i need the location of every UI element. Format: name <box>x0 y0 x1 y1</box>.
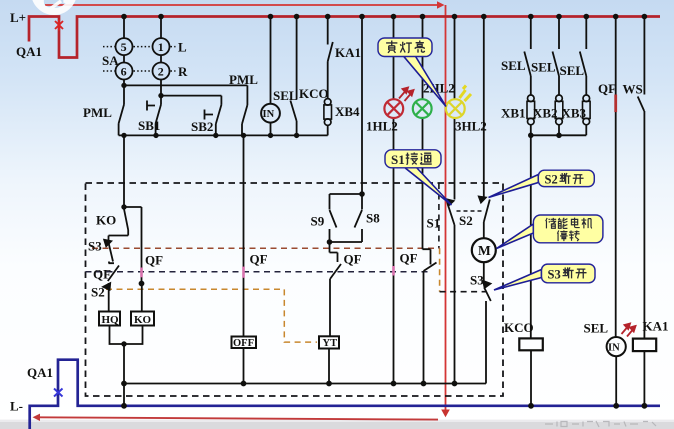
svg-text:M: M <box>478 243 491 258</box>
callout text 储能电机 <box>546 218 592 229</box>
contact KO <box>109 209 129 241</box>
svg-text:S2: S2 <box>459 213 473 228</box>
pink state mark on KO branch <box>140 268 143 278</box>
callout pointer to 3HL2 <box>403 56 446 107</box>
svg-text:KCO: KCO <box>299 86 329 101</box>
svg-text:L+: L+ <box>10 10 26 25</box>
dashed linkage orange vertical x=439.6 <box>439 248 441 291</box>
svg-text:5: 5 <box>121 40 127 54</box>
svg-text:SEL: SEL <box>531 60 556 75</box>
wire: S2 M S3 column from bus <box>483 17 485 197</box>
wire: SA 5 to 6 <box>123 55 125 63</box>
svg-text:QF: QF <box>93 267 111 282</box>
svg-text:S2: S2 <box>91 285 105 300</box>
dashed linkage maroon y=248.3 <box>92 247 440 249</box>
svg-text:S3: S3 <box>548 267 561 281</box>
callout box S3-opens <box>542 264 596 283</box>
svg-text:KO: KO <box>134 314 152 326</box>
wire: bottom connector y=383.5 <box>124 383 486 385</box>
L- bus QA1 breaker blue <box>30 360 660 429</box>
svg-text:SEL: SEL <box>501 58 526 73</box>
wire: sub-bus from SA6 y=85.4 <box>124 79 247 85</box>
dashed linkage S3 right horizontal <box>440 291 486 293</box>
SA contact 2 <box>153 63 170 80</box>
svg-text:S1: S1 <box>427 216 441 231</box>
callout pointer to S3 <box>494 270 542 291</box>
svg-text:1: 1 <box>158 40 164 54</box>
svg-text:QF: QF <box>145 253 163 268</box>
lamp column 1HL2 <box>393 17 395 384</box>
wire: KO box to join <box>124 326 143 345</box>
contact S8 <box>330 194 363 242</box>
arrow marker S3 right <box>483 281 490 288</box>
wire: KA1 coil to L- <box>643 351 645 406</box>
lamp SEL IN bottom <box>607 337 626 356</box>
svg-text:OFF: OFF <box>233 338 254 349</box>
svg-text:S3: S3 <box>470 273 484 288</box>
wire: lower distribution bus y=135.4 <box>119 134 328 136</box>
connector XB3 <box>583 95 590 102</box>
contact QF mid <box>330 242 342 336</box>
dashed linkage orange S2 to YT <box>106 289 317 342</box>
pink state mark QF 1HL2-column <box>392 266 395 276</box>
dashed linkage dark y=271.8 <box>86 271 431 273</box>
relay box YT <box>319 336 339 348</box>
wire: XB join line <box>531 124 587 135</box>
relay box HQ <box>99 312 120 326</box>
svg-text:SA: SA <box>102 53 119 68</box>
motor M <box>472 238 496 262</box>
wire: IN lamp to L- <box>615 356 617 406</box>
wire: SA 1 to 2 <box>160 55 162 63</box>
lamp 3HL2 yellow <box>446 99 465 118</box>
wire: sub-bus from SA2 y=95.6 <box>161 79 221 95</box>
svg-text:WS: WS <box>623 82 643 97</box>
wire: current-flow bottom horizontal <box>37 417 438 419</box>
svg-text:SEL: SEL <box>584 321 609 336</box>
glow arrows SEL IN <box>622 324 636 337</box>
svg-text:YT: YT <box>323 338 338 349</box>
dotted links SA row2 <box>103 70 115 72</box>
relay box KO <box>131 312 154 326</box>
connector XB1 <box>528 95 535 102</box>
svg-text:R: R <box>178 64 188 79</box>
wire: M to S3 <box>483 262 485 281</box>
wire: OFF to connector <box>243 348 245 384</box>
svg-text:S9: S9 <box>311 214 325 229</box>
lamp column 3HL2 <box>454 17 456 200</box>
contact KA1 <box>328 17 333 100</box>
pink state mark QF off-column <box>242 267 245 278</box>
contact QF left <box>108 266 119 312</box>
contact PML (left) <box>119 85 124 135</box>
contact SEL 3 <box>580 17 587 96</box>
wire: bus to SA circle 5 <box>123 17 125 39</box>
svg-text:XB1: XB1 <box>501 106 526 121</box>
svg-text:IN: IN <box>263 109 275 120</box>
glow rays 3HL2 <box>460 86 472 102</box>
wire: YT to connector <box>328 349 330 384</box>
callout box S1-closes <box>385 150 441 168</box>
svg-text:SB1: SB1 <box>138 118 160 133</box>
svg-text:L-: L- <box>10 399 23 414</box>
wire: join down to L- <box>123 344 125 406</box>
lamp SEL IN <box>270 17 272 136</box>
SA contact 6 <box>116 63 133 80</box>
coil KA1 <box>633 339 656 352</box>
contact SEL 1 <box>524 17 531 96</box>
arrow marker S2 right <box>479 197 486 203</box>
callout pointer to M <box>497 224 534 249</box>
svg-text:QF: QF <box>344 252 362 267</box>
contact SB2 push-button <box>205 96 222 136</box>
dashed inner partition vertical x=439 <box>438 183 440 248</box>
glow arrows 1HL2 <box>399 88 414 102</box>
svg-text:PML: PML <box>83 105 112 120</box>
wire: current-flow indicator top horizontal <box>45 4 437 6</box>
svg-text:XB2: XB2 <box>533 106 558 121</box>
wire: bus to SA circle 1 <box>160 17 162 39</box>
contact SEL 2 <box>553 17 560 96</box>
watermark logo top-left <box>35 0 74 12</box>
wire: KCO coil to L- <box>530 350 532 406</box>
relay box OFF <box>232 337 257 349</box>
arrow marker S3 <box>104 240 111 246</box>
svg-text:1HL2: 1HL2 <box>366 119 398 134</box>
svg-text:KA1: KA1 <box>643 319 669 334</box>
wire: HQ to join <box>110 326 125 345</box>
red state mark on QF right <box>614 95 617 113</box>
contact S9 <box>330 194 363 242</box>
svg-text:QA1: QA1 <box>16 44 42 59</box>
svg-text:3HL2: 3HL2 <box>455 119 487 134</box>
svg-text:2: 2 <box>158 64 164 78</box>
svg-text:PML: PML <box>229 72 258 87</box>
contact KCO <box>290 17 296 136</box>
arrow head left on bottom flow line <box>33 414 41 421</box>
connector XB2 <box>556 95 563 102</box>
svg-text:SEL: SEL <box>273 88 298 103</box>
watermark bottom right <box>545 421 656 427</box>
callout pointer to S2 <box>489 175 539 198</box>
svg-text:IN: IN <box>608 343 620 354</box>
callout box yellow-lamp-on <box>378 38 432 57</box>
wire: S9/S8 column from bus <box>361 17 363 195</box>
wire: QF right column <box>615 17 617 338</box>
bottom gray strip <box>0 421 674 429</box>
contact S3 right <box>484 288 491 384</box>
arrow marker S2 <box>103 283 110 290</box>
wire: branch to KO box <box>124 207 142 312</box>
svg-text:QF: QF <box>598 81 616 96</box>
contact S2 right <box>484 200 490 239</box>
contact SB1 push-button <box>147 96 161 136</box>
dotted links SA row1 <box>103 47 176 71</box>
svg-text:XB3: XB3 <box>562 106 587 121</box>
svg-text:KA1: KA1 <box>335 45 361 60</box>
arrow marker S1 <box>447 199 454 206</box>
lamp 1HL2 red <box>384 99 403 118</box>
L+ bus QA1 breaker red <box>29 17 660 58</box>
node dots mid <box>241 191 458 386</box>
connector XB4 <box>324 99 331 106</box>
wire: down to KCO coil <box>530 135 532 338</box>
lamp 2HL2 green <box>413 99 432 118</box>
dashed linkage S1-S2 <box>457 210 484 212</box>
svg-text:SEL: SEL <box>560 63 585 78</box>
svg-text:6: 6 <box>121 64 127 78</box>
callout text 停转 <box>557 230 579 241</box>
wire: OFF column from lower bus <box>243 135 245 336</box>
svg-text:SB2: SB2 <box>191 119 213 134</box>
svg-text:S8: S8 <box>366 211 380 226</box>
svg-text:S3: S3 <box>88 239 102 254</box>
callout box motor-stops <box>533 215 603 243</box>
arrow head right on top flow line <box>437 1 445 8</box>
coil KCO <box>519 338 543 350</box>
contact S3 left <box>109 243 115 264</box>
arrow head down on vertical flow line <box>441 410 450 418</box>
wire: current-flow vertical down at x=445 <box>445 5 447 410</box>
contact S1 <box>448 204 455 384</box>
wire: XB4 to lower bus <box>327 125 329 135</box>
svg-text:KO: KO <box>96 213 116 228</box>
node: bus dots top <box>121 14 647 20</box>
svg-text:QF: QF <box>250 252 268 267</box>
svg-text:S1: S1 <box>391 152 405 167</box>
svg-text:QA1: QA1 <box>27 365 53 380</box>
svg-text:HQ: HQ <box>102 314 120 326</box>
svg-text:QF: QF <box>400 251 418 266</box>
wire: into box from PML1 <box>123 135 125 207</box>
lamp column 2HL2 <box>422 17 424 250</box>
node dots on lower bus <box>121 83 299 138</box>
contact WS <box>638 17 645 339</box>
SA contact 1 <box>153 38 170 55</box>
svg-text:S2: S2 <box>545 172 558 186</box>
callout text 黄灯亮 <box>386 41 424 53</box>
node dots right and L- <box>528 133 647 409</box>
SA contact 5 <box>116 38 133 55</box>
svg-text:L: L <box>178 40 187 55</box>
contact PML (second) <box>242 85 247 135</box>
callout pointer to S1 <box>404 167 452 205</box>
svg-text:XB4: XB4 <box>335 104 360 119</box>
blue x mark on QA1 bottom <box>54 389 63 397</box>
svg-text:KCO: KCO <box>504 320 534 335</box>
dashed mechanism box <box>86 183 504 396</box>
callout box S2-opens <box>538 170 594 186</box>
contact QF below 2HL2 <box>423 249 437 383</box>
node dots left cluster <box>121 204 144 408</box>
red x mark on QA1 <box>55 20 63 31</box>
